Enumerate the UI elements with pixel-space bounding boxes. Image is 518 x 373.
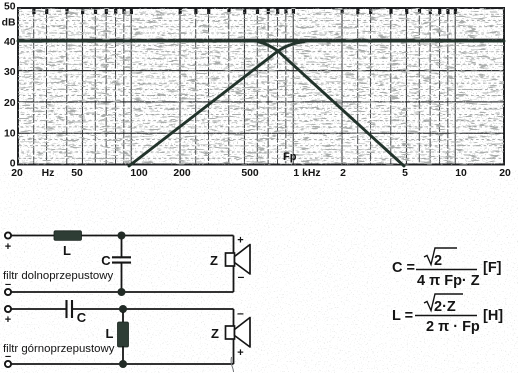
svg-text:40: 40 [4,37,16,48]
svg-text:20: 20 [4,98,16,109]
svg-text:2: 2 [434,253,442,269]
bottom wire circuit 2 [11,363,233,365]
svg-text:[H]: [H] [483,308,503,324]
svg-text:L: L [63,243,71,258]
formula C = sqrt2 / (4 pi Fp Z) [F] [392,248,502,289]
node C (junction top, circuit 2) [119,305,127,313]
svg-text:50: 50 [4,1,16,12]
svg-text:20: 20 [499,168,511,179]
stray scan mark below speaker 2 corner [231,357,233,372]
svg-text:C: C [101,253,111,268]
x axis labels (frequency) [11,168,511,179]
svg-text:5: 5 [402,168,408,179]
wire capacitor to node C and speaker [73,308,234,310]
label: filtr dolnoprzepustowy [3,270,113,282]
svg-text:2 π · Fp: 2 π · Fp [426,319,480,335]
terminal P2+ (input plus, circuit 2) [5,306,11,326]
svg-text:L =: L = [392,308,413,324]
svg-text:10: 10 [4,128,16,139]
svg-text:1 kHz: 1 kHz [293,168,320,179]
svg-text:–: – [237,306,244,320]
wire inductor to node A and speaker [82,235,234,237]
formula L = (sqrt2 Z) / (2 pi Fp) [H] [392,294,503,335]
speaker Z (circuit 1) [210,235,250,284]
node Fp label [283,151,297,163]
svg-text:200: 200 [173,168,191,179]
frequency response chart frame [18,8,504,165]
capacitor C (shunt, low-pass) [101,239,131,292]
node D (junction bottom, circuit 2) [119,360,127,368]
wire input+ to capacitor C [11,308,65,310]
svg-text:2: 2 [340,168,346,179]
wire speaker drop, circuit 2 [233,309,235,364]
terminal P1- (input minus, circuit 1) [5,279,11,296]
speaker Z (circuit 2) [211,306,250,359]
svg-text:+: + [237,235,243,247]
svg-text:filtr górnoprzepustowy: filtr górnoprzepustowy [3,343,115,355]
label: filtr gornoprzepustowy [3,343,115,355]
svg-text:10: 10 [455,168,467,179]
svg-text:+: + [5,314,11,326]
svg-text:+: + [237,347,243,359]
wire speaker drop, circuit 1 [233,236,235,293]
svg-text:Z: Z [211,326,219,341]
svg-text:4 π Fp· Z: 4 π Fp· Z [417,273,480,289]
capacitor C (series, high-pass) [67,300,87,325]
y axis labels (dB) [2,1,16,169]
svg-text:100: 100 [130,168,148,179]
terminal P1+ (input plus, circuit 1) [5,232,11,253]
node A (junction top, circuit 1) [118,232,126,240]
svg-text:–: – [238,270,245,284]
inductor L (shunt, high-pass) [106,312,129,364]
svg-text:2·Z: 2·Z [434,299,456,315]
svg-text:L: L [106,326,114,341]
svg-text:filtr dolnoprzepustowy: filtr dolnoprzepustowy [3,270,113,282]
svg-text:50: 50 [71,168,83,179]
svg-text:Z: Z [210,253,218,268]
svg-text:Fp: Fp [283,151,297,163]
node B (junction bottom, circuit 1) [118,288,126,296]
bottom wire circuit 1 [11,291,233,293]
svg-text:+: + [5,241,11,253]
wire input+ to inductor L [11,235,54,237]
svg-text:500: 500 [241,168,259,179]
svg-text:[F]: [F] [483,260,502,276]
low-pass response curve (flat then falling) [18,41,504,166]
svg-text:Hz: Hz [42,168,55,179]
svg-text:dB: dB [2,17,16,28]
svg-text:20: 20 [11,168,23,179]
svg-text:C: C [77,310,87,325]
svg-text:C =: C = [392,260,415,276]
inductor L (series, low-pass) [54,231,82,258]
high-pass response curve (rising then flat) [129,42,304,166]
terminal P2- (input minus, circuit 2) [5,351,11,368]
svg-text:30: 30 [4,67,16,78]
